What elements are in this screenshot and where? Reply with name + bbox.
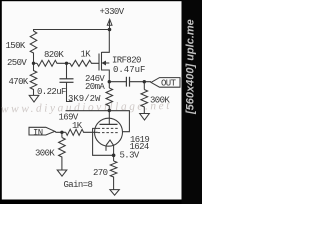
svg-text:820K: 820K [44, 50, 64, 60]
svg-text:1K: 1K [81, 50, 92, 60]
svg-text:150K: 150K [6, 41, 26, 51]
svg-text:OUT: OUT [161, 79, 177, 89]
svg-text:250V: 250V [7, 58, 27, 68]
svg-text:IRF820: IRF820 [112, 56, 141, 66]
svg-text:300K: 300K [35, 149, 55, 159]
svg-text:IN: IN [33, 128, 43, 138]
svg-text:470K: 470K [9, 77, 29, 87]
svg-text:Gain=8: Gain=8 [64, 180, 93, 190]
svg-text:20mA: 20mA [85, 82, 105, 92]
svg-text:[560x400] uplc.me: [560x400] uplc.me [185, 19, 197, 115]
svg-text:3K9/2W: 3K9/2W [68, 94, 101, 104]
svg-text:5.3V: 5.3V [120, 151, 140, 161]
svg-text:1K: 1K [72, 121, 83, 131]
svg-text:270: 270 [93, 168, 108, 178]
svg-text:0.47uF: 0.47uF [113, 65, 145, 75]
svg-text:0.22uF: 0.22uF [37, 87, 66, 97]
svg-text:300K: 300K [150, 96, 170, 106]
svg-text:+330V: +330V [100, 7, 125, 17]
